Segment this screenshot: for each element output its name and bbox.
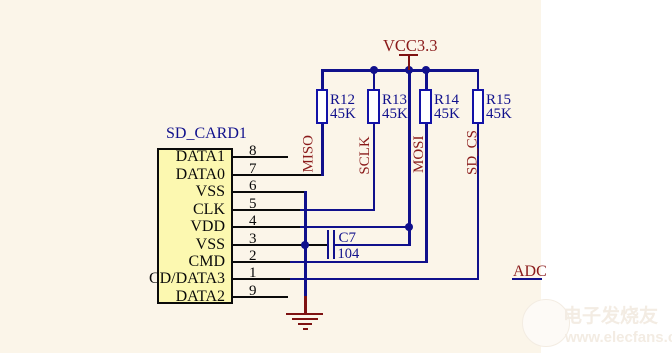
pin 4 stub wire to VDD net [232, 226, 332, 228]
designator SD_CARD1 [166, 126, 247, 142]
junction dot VCC stem/bus [405, 66, 413, 74]
pin 5 CLK name [0, 202, 225, 218]
resistor R12 label [330, 93, 356, 121]
pin number 4 [249, 214, 257, 229]
pin 2 stub wire to MOSI net [232, 261, 292, 263]
wire VDD horizontal [300, 226, 410, 228]
pin 8 stub wire (open) [232, 156, 288, 158]
wire MOSI vertical [425, 123, 428, 263]
pin 4 VDD name [0, 219, 225, 235]
pin number 8 [249, 144, 257, 159]
pin 3 stub wire to C7 left plate [232, 244, 327, 246]
resistor R12 body [316, 89, 329, 124]
junction dot VDD/pin4 row [405, 223, 413, 231]
pin 9 stub wire (open) [232, 296, 288, 298]
pin 6 VSS name [0, 184, 225, 200]
pin number 1 [249, 266, 257, 281]
elecfans watermark logo circle (faint) [522, 299, 570, 347]
resistor R13 body [367, 89, 380, 124]
power port VCC3.3 stem [408, 55, 411, 70]
pin 7 stub wire to MISO net [232, 174, 322, 176]
connector J: SD_CARD1 chip body [157, 148, 233, 304]
resistor R14 body [419, 89, 432, 124]
pin 1 stub wire to SD_CS net [232, 278, 292, 280]
elecfans watermark text (faint) [563, 306, 658, 328]
wire MISO vertical [321, 123, 324, 176]
pin 5 stub wire to SCLK net [232, 209, 332, 211]
wire MOSI horizontal [290, 261, 427, 263]
ground symbol bar 2 [292, 318, 318, 320]
net label SCLK [358, 136, 373, 175]
resistor R15 body [472, 89, 485, 124]
pin number 7 [249, 162, 257, 177]
white watermark band right side [541, 0, 672, 353]
ground symbol stem [304, 296, 307, 313]
capacitor C7 left plate [327, 230, 330, 259]
net label SD_CS [466, 127, 481, 179]
ground symbol bar 4 [303, 328, 308, 330]
capacitor C7 right plate [333, 230, 336, 259]
net label MOSI [412, 136, 427, 173]
capacitor C7 value 104 [338, 247, 360, 262]
VCC bus wire horizontal [321, 69, 479, 72]
pin number 9 [249, 284, 257, 299]
pin 1 CD/DATA3 name [0, 271, 225, 287]
net label ADC (cropped) [513, 264, 547, 280]
wire SD_CS horizontal [290, 278, 479, 280]
ground symbol bar 1 [286, 313, 323, 315]
capacitor C7 designator [339, 231, 357, 246]
pin number 5 [249, 197, 257, 212]
pin number 6 [249, 179, 257, 194]
pin 7 DATA0 name [0, 167, 225, 183]
net label MISO [301, 139, 316, 173]
wire SCLK vertical [373, 123, 376, 211]
pin 9 DATA2 name [0, 289, 225, 305]
wire R13 top stub [373, 69, 376, 89]
pin number 3 [249, 232, 257, 247]
wire ADC stub [512, 278, 542, 281]
ground symbol bar 3 [298, 323, 312, 325]
wire R14 top stub [425, 69, 428, 89]
junction dot R13/bus [370, 66, 378, 74]
resistor R15 label [486, 93, 512, 121]
pin 2 CMD name [0, 254, 225, 270]
junction dot VSS/pin3 row [301, 241, 309, 249]
pin number 2 [249, 249, 257, 264]
junction dot R14/bus [422, 66, 430, 74]
resistor R14 label [434, 93, 460, 121]
pin 8 DATA1 name [0, 149, 225, 165]
wire VSS vertical to ground [304, 191, 307, 297]
resistor R13 label [382, 93, 408, 121]
wire R12 top stub [321, 69, 324, 89]
wire VDD vertical from bus to C7 row [408, 70, 411, 246]
power port VCC3.3 bar [399, 54, 418, 57]
wire SCLK horizontal [300, 209, 375, 211]
wire C7 right to VDD riser [334, 244, 410, 246]
pin 6 stub wire to VSS net [232, 191, 306, 193]
wire R15 top stub [477, 69, 480, 89]
power port VCC3.3 label [383, 38, 438, 55]
pin 3 VSS name [0, 237, 225, 253]
wire SD_CS vertical [477, 123, 480, 280]
